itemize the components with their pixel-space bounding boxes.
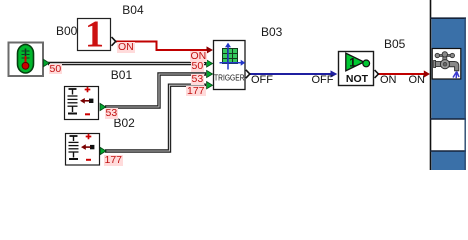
output pin B03 chevron (246, 70, 250, 78)
value label 50 at B00 output (49, 64, 63, 75)
value label ON at B05 output (380, 75, 397, 86)
svg-text:1: 1 (85, 14, 104, 56)
wire B03 to B05 boolean OFF blue (250, 70, 338, 77)
output pin B01 green arrow (100, 103, 106, 110)
input pin B03-4 green arrow (207, 82, 213, 89)
output block faucet cell (432, 49, 461, 80)
label B01 (111, 69, 132, 81)
value label OFF at B03 output (251, 75, 273, 86)
wire B00 to B03 analog value 50 (48, 62, 206, 65)
input pin B03-2 green arrow (207, 60, 213, 67)
value label 177 at B03 input 4 (186, 86, 206, 97)
block B01 potentiometer (65, 87, 99, 120)
value label OFF at B05 input (312, 75, 334, 86)
output pin B05 chevron (375, 70, 379, 78)
output pin B00 green arrow (44, 59, 50, 66)
svg-text:TRIGGER: TRIGGER (214, 73, 245, 83)
output zone column background (430, 0, 466, 170)
label B02 (114, 117, 135, 129)
value label 177 at B02 output (104, 155, 124, 166)
value label 50 at B03 input 2 (191, 61, 205, 72)
block B00 temperature sensor (9, 43, 44, 77)
block B02 potentiometer (66, 134, 100, 166)
value label ON at faucet input (409, 75, 426, 86)
value label 53 at B01 output (105, 108, 119, 119)
value label ON at B03 input 1 (190, 51, 208, 62)
wire B02 to B03 analog value 177 (105, 85, 206, 151)
block B03 trigger (214, 41, 246, 90)
wire B05 to output faucet boolean ON red (379, 70, 431, 77)
svg-text:1: 1 (349, 56, 356, 70)
label B04 (122, 4, 143, 16)
label B05 (384, 38, 405, 50)
output pin B02 green arrow (100, 147, 106, 154)
value label 53 at B03 input 3 (191, 74, 205, 85)
output pin B04 chevron (112, 37, 116, 46)
wire B04 to B03 boolean ON red (116, 42, 213, 54)
label B00 (56, 25, 77, 37)
value label ON at B04 output (117, 42, 135, 53)
block B04 constant 1 (78, 14, 111, 56)
label B03 (261, 26, 282, 38)
input pin B03-3 green arrow (207, 70, 213, 77)
block B05 NOT gate (339, 52, 374, 86)
svg-text:NOT: NOT (346, 73, 369, 85)
wire B01 to B03 analog value 53 (105, 74, 206, 107)
